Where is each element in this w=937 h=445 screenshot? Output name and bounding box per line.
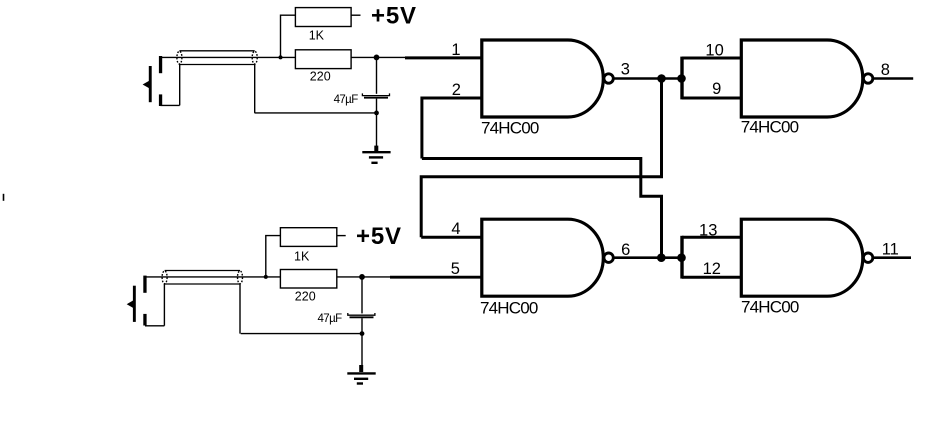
wire: top 1K left leg [281,15,296,57]
svg-text:+5V: +5V [371,3,417,30]
svg-text:74HC00: 74HC00 [741,117,799,136]
svg-text:1K: 1K [309,29,325,43]
cable (bottom) [162,271,242,285]
wire: top cap to ground [376,99,378,147]
op-amp U1D NAND gate 74HC00 [741,219,873,296]
svg-text:+5V: +5V [356,223,402,250]
svg-text:3: 3 [621,61,630,79]
resistor R1 1K (top) [295,8,351,27]
node: bottom ground junction [360,331,365,336]
svg-text:2: 2 [452,81,461,99]
resistor R3 1K (bottom) [280,228,336,247]
wire: top cap riser [376,57,378,93]
wire: gate3 pin4 lead [421,236,483,239]
node: gate2 input junction [677,74,686,83]
wire: bottom cap to ground [361,318,363,366]
node: gate1 output junction [657,74,666,83]
wire: gate2 output pin8 [873,77,913,80]
wire: gate4 input bar [680,236,683,279]
wire: gate3 pin5 lead [390,276,483,279]
wire: bottom 1K left leg [266,236,281,277]
pushbutton S2 (bottom) [127,276,147,326]
node: gate4 input junction [677,253,686,262]
svg-text:10: 10 [705,41,723,59]
ground (top) [362,146,390,163]
wire: gate2 pin9 lead [682,97,743,100]
wire: gate4 output pin11 [873,256,911,259]
wire: gate3 output [613,256,681,259]
wire: top return horizontal [255,112,377,114]
svg-text:1K: 1K [294,250,310,264]
wire: gate1 pin2 lead and riser [422,98,483,159]
resistor R4 220 (bottom) [280,270,336,289]
wire: bottom 1K to +5V stub [337,235,346,237]
op-amp U1A NAND gate 74HC00 [482,40,614,117]
svg-text:1: 1 [451,41,460,59]
node: top 1K junction [279,55,283,59]
op-amp U1C NAND gate 74HC00 [482,219,614,296]
svg-text:4: 4 [451,220,460,238]
wire: bottom cable right down leg [239,284,241,334]
svg-text:8: 8 [881,61,890,79]
svg-text:11: 11 [882,241,899,259]
node: bottom RC junction [359,274,365,280]
svg-text:5: 5 [451,260,460,278]
capacitor C1 47uF (top) [362,93,389,97]
op-amp U1B NAND gate 74HC00 [741,40,873,117]
capacitor C2 47uF (bottom) [348,313,375,317]
wire: gate1 output [613,77,681,80]
svg-text:74HC00: 74HC00 [481,119,539,138]
wire: feedback H1 latch1 out to gate1 pin2 [422,159,662,258]
wire: gate4 pin13 lead [682,236,743,239]
wire: S2 lower contact link [145,284,164,326]
svg-text:74HC00: 74HC00 [741,297,799,316]
svg-text:6: 6 [621,241,630,259]
cable (top) [177,51,257,65]
wire: top cable right down leg [254,65,256,113]
wire: gate2 pin10 lead [682,57,743,60]
wire: gate1 pin1 lead [405,56,483,59]
node: top ground junction [374,111,379,116]
svg-text:74HC00: 74HC00 [480,299,538,318]
wire: gate2 input bar [680,57,683,100]
svg-text:47µF: 47µF [318,313,343,325]
pushbutton S1 (top) [143,56,163,106]
svg-text:9: 9 [712,80,721,98]
wire: feedback H3 gate1 out to gate3 pin4 [421,79,661,238]
wire: bottom return horizontal [241,333,362,335]
wire: top 1K to +5V stub [351,14,360,16]
wire: bottom cap riser [361,277,363,314]
ground (bottom) [347,365,375,384]
node: bottom 1K junction [264,275,268,279]
wire: gate4 pin12 lead [682,276,743,279]
svg-text:220: 220 [295,289,316,303]
svg-text:12: 12 [703,260,721,278]
wire: top main input net [160,56,405,58]
svg-text:47µF: 47µF [334,94,359,106]
resistor R2 220 (top) [295,50,351,69]
stray mark left edge [3,194,5,201]
svg-text:220: 220 [310,69,331,83]
wire: bottom main input net [145,276,390,278]
svg-text:13: 13 [699,221,717,239]
node: gate3 output junction [657,253,666,262]
node: top RC junction [374,55,380,61]
wire: S1 lower contact link [161,65,180,106]
